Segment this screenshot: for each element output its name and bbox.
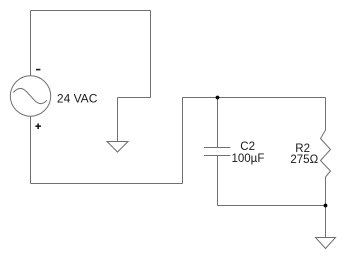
ground 1 [107,142,128,153]
wire source plus terminal down [30,116,32,183]
svg-text:C2: C2 [240,141,255,153]
node junction dot bottom right [324,204,328,208]
ac source V1 sine wave [13,88,47,103]
wire bottom-left horizontal [31,183,183,185]
ac source plus sign [35,123,41,129]
wire right vertical from top wire [150,11,152,98]
wire left-top vertical to source minus terminal [30,11,32,76]
wire resistor bottom lead [325,177,327,206]
ac source V1 circle [10,76,50,116]
wire vertical up to middle rail [182,98,184,184]
node junction dot middle rail [216,96,220,100]
capacitor C2 plates [204,148,231,156]
resistor R2 zigzag [321,130,331,177]
svg-text:100µF: 100µF [232,153,265,165]
wire resistor top lead [325,98,327,131]
wire capacitor top lead [217,98,219,148]
wire step horizontal to ground branch [118,97,151,99]
wire middle rail horizontal [183,97,326,99]
svg-text:275Ω: 275Ω [290,154,318,166]
wire capacitor bottom lead [217,156,219,206]
wire ground 2 lead [325,206,327,238]
ground 2 [316,238,336,249]
svg-text:24 VAC: 24 VAC [57,91,98,105]
wire step vertical down to ground [117,98,119,142]
ac source minus sign [36,69,40,71]
wire bottom-right horizontal [218,205,326,207]
svg-text:R2: R2 [295,143,310,155]
wire top horizontal [31,10,151,12]
